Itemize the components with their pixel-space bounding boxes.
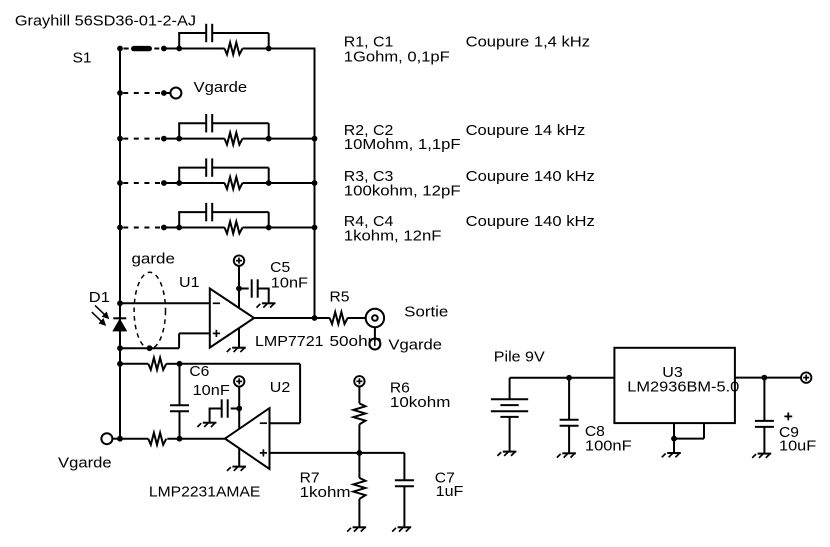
node divider R6 R7 [357,450,363,456]
svg-text:10uF: 10uF [779,437,816,454]
capacitor C9 [755,420,774,422]
svg-text:10kohm: 10kohm [390,394,451,411]
wire battery to U3 input [510,377,615,379]
wire C4 branch riser right [268,212,270,227]
wire U1 ground pin stub [238,328,240,348]
node R3C3 right junction [266,180,272,186]
svg-text:U2: U2 [270,379,291,396]
ground for U2 bypass cap [197,423,216,427]
wire C9 top stub [763,378,765,421]
terminal Vgarde (switch row) [170,88,181,99]
ground for R7 [347,527,366,531]
wire C7 to ground [403,486,405,527]
wire U2 output [167,438,225,440]
connector Sortie (coax jack) [366,309,384,327]
svg-text:Coupure 140 kHz: Coupure 140 kHz [466,213,595,230]
svg-text:S1: S1 [73,50,92,67]
wire U2 ground pin stub [238,448,240,466]
svg-text:100nF: 100nF [585,437,632,454]
wire row node to R4C4 [164,227,225,229]
svg-text:Sortie: Sortie [404,304,448,321]
node C6 top [177,361,183,367]
wire R6 to divider node [358,424,360,453]
svg-text:Grayhill 56SD36-01-2-AJ: Grayhill 56SD36-01-2-AJ [15,12,196,29]
wire C2 branch riser right [268,123,270,138]
wire +5V to U2 supply node [238,387,240,409]
svg-text:Coupure 14 kHz: Coupure 14 kHz [466,122,586,139]
switch S1 contact row R2 [117,136,167,142]
wire R1 right to node [243,48,269,50]
node R3C3 left junction [176,180,182,186]
terminal Vgarde (output shield) [369,339,380,350]
wire C3 branch riser left [178,168,180,183]
node U3 ground [671,436,677,442]
node C8 top [566,375,572,381]
svg-text:C6: C6 [189,363,209,380]
wire R3 right to node [243,182,269,184]
wire bus to U1 inverting input [120,302,210,304]
ground for C8 [557,453,576,457]
wire U3 output [735,377,802,379]
svg-text:D1: D1 [89,289,110,306]
svg-text:1kohm: 1kohm [300,484,351,501]
wire supply node to U2 bypass cap [231,408,240,410]
wire U1 supply pin stub [238,289,240,309]
svg-text:LMP2231AMAE: LMP2231AMAE [149,484,261,501]
node U2 supply [236,406,242,412]
wire right bus (feedback to output) [314,48,316,319]
wire guard from bus [120,347,179,349]
wire U1 output [254,317,330,319]
svg-text:U1: U1 [179,274,200,291]
ground for C7 [392,527,411,531]
svg-text:Coupure 1,4 kHz: Coupure 1,4 kHz [466,34,590,51]
wire C3 branch top left [178,167,206,169]
wire row R4 to right bus [269,227,315,229]
wire guard riser to U1 non-inverting input [178,333,180,348]
wire U2 supply pin stub [238,409,240,429]
wire C8 top stub [568,378,570,420]
resistor R2 [225,133,243,145]
ground for U2 [227,467,246,471]
wire bypass cap to ground corner [210,408,222,410]
resistor R1 [225,43,243,55]
switch S1 contact row R4 [117,225,167,231]
light arrow 2 into D1 [92,312,106,325]
svg-text:LMP7721: LMP7721 [255,333,324,350]
node row1 right junction [266,46,272,52]
svg-text:1kohm, 12nF: 1kohm, 12nF [344,227,442,244]
node C6 bottom on U2 output [177,436,183,442]
wire bus to guard feedback resistor [120,363,148,365]
svg-text:Coupure 140 kHz: Coupure 140 kHz [466,168,595,185]
wire row1 node to R1C1 [164,48,225,50]
node R2C2 right junction [266,136,272,142]
capacitor C2 [205,114,207,132]
wire C2 branch top left [178,122,206,124]
wire row1 to right bus [269,48,316,50]
wire C1 branch riser left [178,33,180,49]
node R4C4 left junction [176,225,182,231]
wire U2 feedback loop top [180,363,301,365]
node U1 inverting input on bus [117,300,123,306]
wire divider to C7 [403,453,405,480]
svg-text:100kohm, 12pF: 100kohm, 12pF [344,182,461,199]
wire joining U3 ground pins [673,438,704,440]
svg-text:C5: C5 [270,259,290,276]
wire C1 branch top left [178,32,206,34]
node guard wire on bus [117,345,123,351]
wire C3 branch top right [212,167,269,169]
battery Pile 9V [491,378,528,452]
resistor guard output (lower) [148,433,166,445]
resistor R3 [225,177,243,189]
power +5V symbol for R6 [354,376,364,386]
wire C2 branch riser left [178,123,180,138]
op-amp U2 LMP2231 [225,408,270,469]
photodiode D1 [113,318,126,331]
wire to U1 non-inverting input [179,332,210,334]
node R4C4 right junction [266,225,272,231]
node Vgarde terminal row [117,436,123,442]
wire C4 branch top left [178,211,206,213]
resistor R7 [353,478,365,499]
svg-text:10nF: 10nF [271,275,308,292]
node output / right bus junction [312,315,318,321]
wire C1 branch riser right [268,33,270,49]
node guard ellipse junction [147,345,153,351]
power +5V symbol for U2 [234,376,244,386]
power +5V symbol for U1 [234,255,244,265]
wire resistor to bus (Vgarde row) [120,438,148,440]
node R2C2 left junction [176,136,182,142]
wire R7 to ground [358,499,360,527]
wire U3 ground pin 1 [673,423,675,439]
switch S1 contact row R3 [117,180,167,186]
ground for U3 [662,453,681,457]
wire U3 ground stub [673,439,675,453]
node C9 top [762,375,768,381]
wire row node to R3C3 [164,182,225,184]
resistor R5 [330,312,348,324]
label C9 polarity + [784,413,792,421]
svg-text:Vgarde: Vgarde [388,337,442,354]
wire C9 to ground [763,427,765,454]
capacitor C7 [395,480,414,486]
guard ring ellipse (garde) [134,272,165,349]
capacitor C5 [251,279,253,297]
wire U2 feedback loop right [299,364,301,423]
wire row node to R2C2 [164,138,225,140]
wire R5 to output jack [347,317,365,319]
svg-text:1uF: 1uF [436,483,464,500]
svg-text:LM2936BM-5.0: LM2936BM-5.0 [627,379,739,396]
wire U2 feedback to inverting input [270,422,301,424]
node row1 left junction [176,46,182,52]
wire +5V to U1 supply node [238,266,240,289]
wire R2 right to node [243,138,269,140]
switch S1 open contact to Vgarde [117,90,171,96]
node right bus row R3 [312,180,318,186]
node right bus row R4 [312,225,318,231]
svg-text:Pile 9V: Pile 9V [494,349,545,366]
capacitor U2 bypass [221,399,223,417]
ground for U1 [227,348,246,352]
svg-text:Vgarde: Vgarde [58,454,112,471]
resistor R6 [353,403,365,424]
wire U3 ground pin 2 [703,423,705,439]
wire row R3 to right bus [269,182,315,184]
terminal Vgarde (bottom left) [101,433,112,444]
wire C8 to ground [568,426,570,454]
node U1 supply [236,286,242,292]
wire supply node to C5 [239,288,249,290]
svg-text:10nF: 10nF [193,382,230,399]
regulator U3 LM2936 box [614,348,735,423]
wire row R2 to right bus [269,138,315,140]
capacitor C6 [170,364,189,439]
op-amp U1 LMP7721 [210,289,254,348]
svg-text:R5: R5 [330,289,350,306]
ground for C9 [752,454,771,458]
wire C4 branch riser left [178,212,180,227]
svg-text:1Gohm, 0,1pF: 1Gohm, 0,1pF [344,48,450,65]
wire C5 to ground corner [258,288,269,290]
resistor guard feedback (upper) [148,358,166,370]
wire divider node to R7 [358,453,360,478]
wire U2 non-inverting input to divider [270,452,405,454]
wire C1 branch top right [212,32,269,34]
node guard feedback on bus [117,361,123,367]
svg-text:garde: garde [132,251,175,268]
svg-text:10Mohm, 1,1pF: 10Mohm, 1,1pF [344,136,461,153]
capacitor C3 [205,158,207,176]
switch S1 wiper contact row 1 [117,46,167,52]
wire S1 pole bus (left vertical) [119,49,121,439]
capacitor C4 [205,203,207,221]
wire C2 branch top right [212,122,269,124]
capacitor C1 [205,24,207,42]
light arrow 1 into D1 [95,305,109,318]
node right bus row R2 [312,136,318,142]
ground for battery [497,452,516,456]
wire +5V to R6 [358,387,360,404]
svg-text:Vgarde: Vgarde [194,79,248,96]
capacitor C8 [560,419,579,421]
wire bus to Vgarde terminal [112,438,120,440]
resistor R4 [225,222,243,234]
wire jack shield to Vgarde terminal [374,327,376,339]
ground for C5 [257,303,276,307]
wire C3 branch riser right [268,168,270,183]
wire R4 right to node [243,227,269,229]
wire C4 branch top right [212,211,269,213]
terminal +5V output [801,372,811,382]
wire resistor to C6 node [166,363,179,365]
